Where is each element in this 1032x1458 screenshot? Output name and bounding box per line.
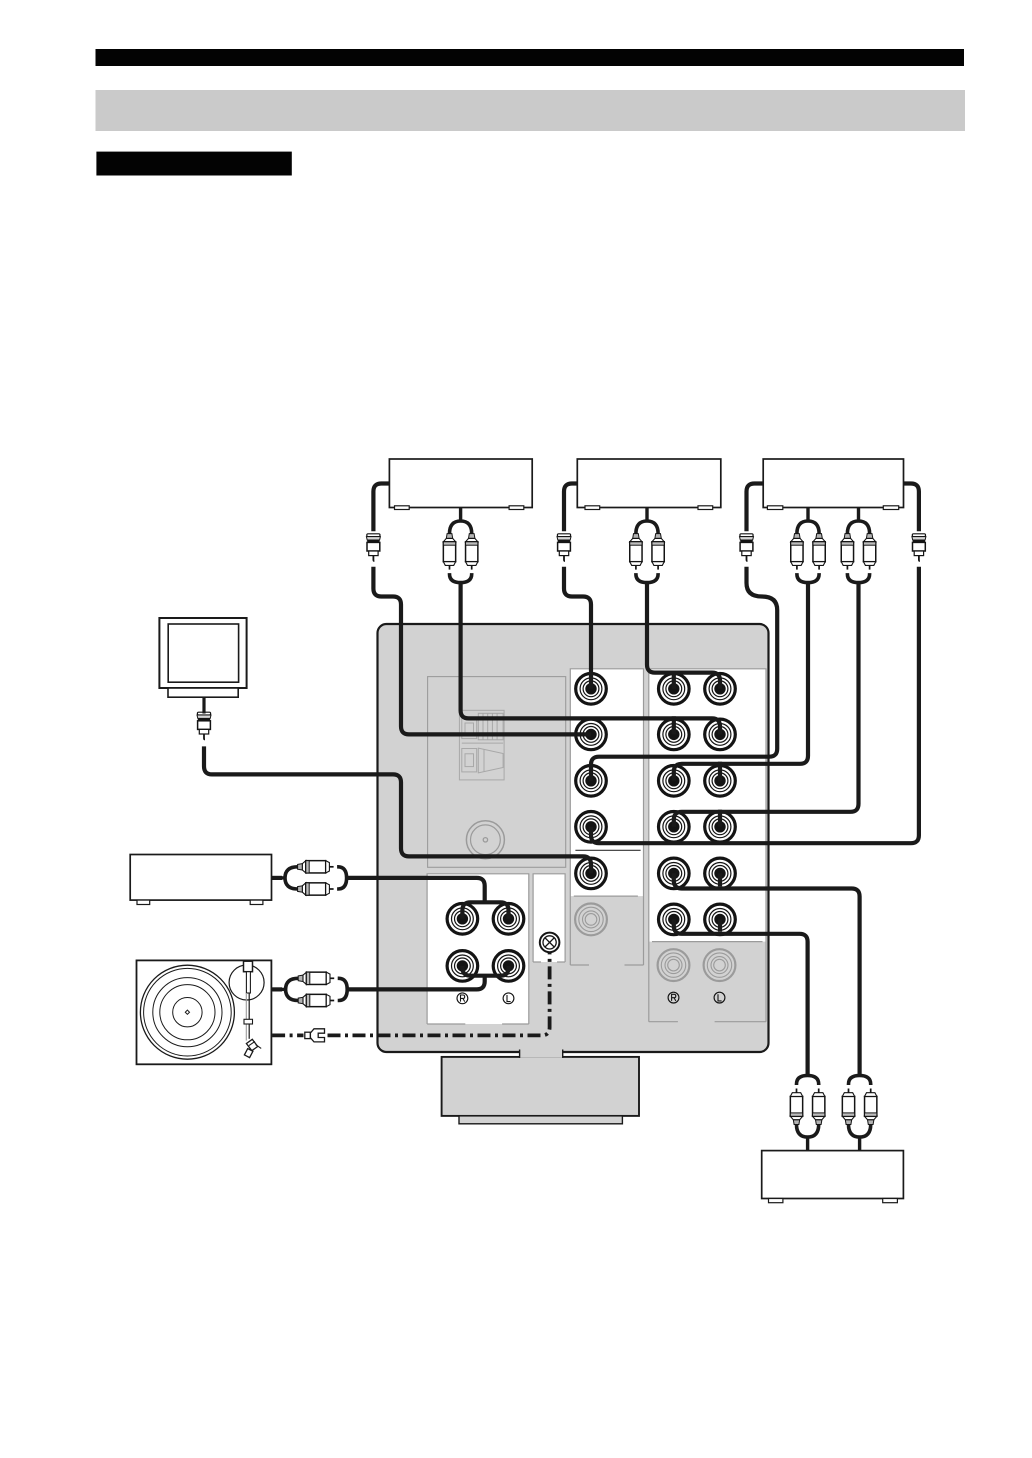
wire turntable cable right <box>347 976 485 990</box>
gray heading bar <box>96 90 966 131</box>
jack middle row2 <box>576 719 607 750</box>
wire box3 pair1 cable <box>674 583 808 781</box>
tonearm rest clip <box>244 1019 253 1024</box>
device box 3 <box>763 459 903 508</box>
pair plugs box3 first <box>791 508 826 583</box>
bottom right box left foot <box>769 1199 783 1203</box>
label L bottom left panel <box>503 993 514 1004</box>
bottom right box right foot <box>883 1199 898 1203</box>
jack middle row4 <box>576 812 607 843</box>
pair plugs box1 <box>443 508 478 583</box>
connecting neck tab <box>520 1050 563 1058</box>
TV base <box>168 688 238 697</box>
wire stub right col2 row4 <box>718 810 722 827</box>
tonearm cartridge <box>244 1039 261 1057</box>
pair plugs box3 second <box>841 508 876 583</box>
speaker terminals sketch <box>459 710 504 780</box>
jack right col1 row2 <box>659 719 690 750</box>
label R right bottom <box>668 992 679 1003</box>
turntable platter <box>140 965 234 1059</box>
wire TV monitor cable <box>204 746 591 873</box>
bottom left jack panel white <box>427 874 529 1024</box>
wire stub right col2 row5 <box>718 873 722 886</box>
TV monitor outer <box>159 618 246 688</box>
device box 2 <box>577 459 721 508</box>
MD recorder box <box>130 855 271 901</box>
label R bottom left panel <box>457 993 468 1004</box>
jack right col1 row5 <box>659 858 690 889</box>
top title black bar <box>96 49 965 66</box>
FM antenna jack circle <box>466 821 504 859</box>
MD box right foot <box>250 900 263 904</box>
jack right col1 row3 <box>659 766 690 797</box>
wire box3 right plug cable upper <box>904 484 919 532</box>
gray jack middle column row6 <box>575 904 607 936</box>
plug box3 right <box>912 534 926 561</box>
box2 left foot <box>585 506 600 510</box>
divider line middle column <box>575 849 640 851</box>
jack bottom-left panel top R <box>447 904 478 935</box>
box1 right foot <box>509 506 524 510</box>
gray jack right R <box>658 949 690 981</box>
tonearm circle <box>229 965 264 1000</box>
speaker terminal area inner rectangle <box>428 677 566 868</box>
wire stub right col1 row2 <box>672 716 676 734</box>
box3 left foot <box>767 506 782 510</box>
ground screw <box>540 933 560 953</box>
jack middle row3 <box>576 766 607 797</box>
pair plugs bottom box B <box>842 1076 877 1151</box>
wire box1 pair cable <box>461 583 720 735</box>
wire MD recorder cable right <box>347 878 485 902</box>
ground screw white strip <box>533 874 565 962</box>
receiver rear panel <box>378 624 769 1052</box>
device box 1 <box>389 459 532 508</box>
section label black box <box>96 152 291 176</box>
plug box3 left <box>740 534 754 561</box>
ground wire dash-dot <box>272 953 549 1036</box>
jack middle row5 <box>576 858 607 889</box>
wire box2 left plug cable upper <box>564 484 577 532</box>
turntable box <box>137 960 272 1064</box>
tonearm shaft <box>246 972 250 993</box>
plug box2 left <box>557 534 571 561</box>
jack right col2 row4 <box>705 812 736 843</box>
ground spade lug <box>305 1029 325 1042</box>
gray jack right L <box>704 949 736 981</box>
wire stub right col2 row3 <box>718 762 722 781</box>
jack right col2 row6 <box>705 904 736 935</box>
box1 left foot <box>395 506 410 510</box>
jack bottom-left panel bottom L <box>493 951 524 982</box>
jack right col1 row1 <box>659 674 690 705</box>
wire phono jack bar <box>462 966 508 976</box>
pair plugs box2 <box>630 508 665 583</box>
jack right col2 row2 <box>705 719 736 750</box>
jack bottom-left panel bottom R <box>447 951 478 982</box>
wire box2 pair cable <box>647 583 720 689</box>
wire bottom box pairA cable <box>674 919 808 1075</box>
jack right col1 row4 <box>659 812 690 843</box>
box2 right foot <box>698 506 713 510</box>
wire box3 left plug cable lower <box>591 567 777 781</box>
jack bottom-left panel top L <box>493 904 524 935</box>
label L right bottom <box>714 992 725 1003</box>
wire box3 right plug cable lower <box>591 567 919 843</box>
box3 right foot <box>883 506 898 510</box>
wire box2 left plug cable lower <box>564 567 591 689</box>
jack right col2 row3 <box>705 766 736 797</box>
cables <box>204 484 919 1076</box>
tonearm pivot <box>244 961 253 972</box>
wire box1 left plug cable upper <box>373 484 389 532</box>
jack right col2 row1 <box>705 674 736 705</box>
middle jack column white strip <box>570 669 643 896</box>
pair plugs MD recorder <box>272 861 347 896</box>
wire box3 left plug cable upper <box>747 484 764 532</box>
wire box3 pair2 cable <box>674 583 859 827</box>
jack right col2 row5 <box>705 858 736 889</box>
TV screen <box>168 624 238 682</box>
wire stub right col2 row6 <box>718 919 722 931</box>
plug box1 left <box>366 534 380 561</box>
MD box left foot <box>137 900 150 904</box>
pair plugs bottom box A <box>790 1076 825 1151</box>
bottom gray box below panel <box>442 1057 639 1116</box>
plug TV monitor <box>197 712 211 739</box>
jack right col1 row6 <box>659 904 690 935</box>
wire bottom box pairB cable <box>674 873 860 1075</box>
wire MD jack bar <box>462 902 508 919</box>
jack middle row1 <box>576 674 607 705</box>
bottom gray box base <box>459 1116 622 1124</box>
wire MD recorder cable left <box>272 876 283 880</box>
bottom right device box <box>762 1151 904 1199</box>
wire box1 left plug cable lower <box>373 567 591 735</box>
wire stub right col1 row1 <box>672 671 676 689</box>
TV cable stem <box>202 697 205 713</box>
pair plugs turntable <box>272 972 347 1007</box>
right jack column white strip <box>649 669 766 942</box>
wire turntable cable left <box>272 987 282 991</box>
